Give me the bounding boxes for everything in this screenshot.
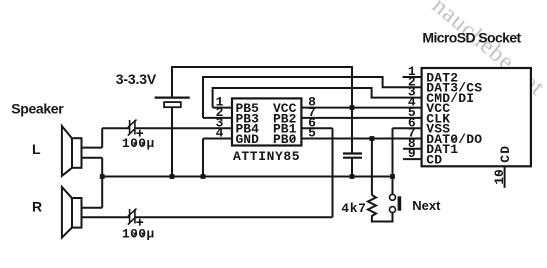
svg-text:9: 9 [408,146,416,161]
svg-text:4k7: 4k7 [341,201,366,216]
svg-text:100µ: 100µ [122,136,155,151]
svg-text:10: 10 [492,169,507,185]
svg-text:3-3.3V: 3-3.3V [116,71,157,87]
svg-text:ATTINY85: ATTINY85 [233,149,300,164]
svg-text:Next: Next [412,198,441,213]
svg-text:GND: GND [236,132,260,147]
svg-text:L: L [32,141,41,157]
svg-text:R: R [32,199,42,215]
svg-text:4: 4 [216,126,224,141]
svg-text:Speaker: Speaker [11,100,64,116]
svg-text:PB0: PB0 [273,132,297,147]
svg-text:5: 5 [308,126,316,141]
svg-text:100µ: 100µ [122,226,155,241]
svg-text:CD: CD [498,145,513,163]
svg-text:MicroSD Socket: MicroSD Socket [422,29,521,45]
svg-text:CD: CD [426,153,442,168]
